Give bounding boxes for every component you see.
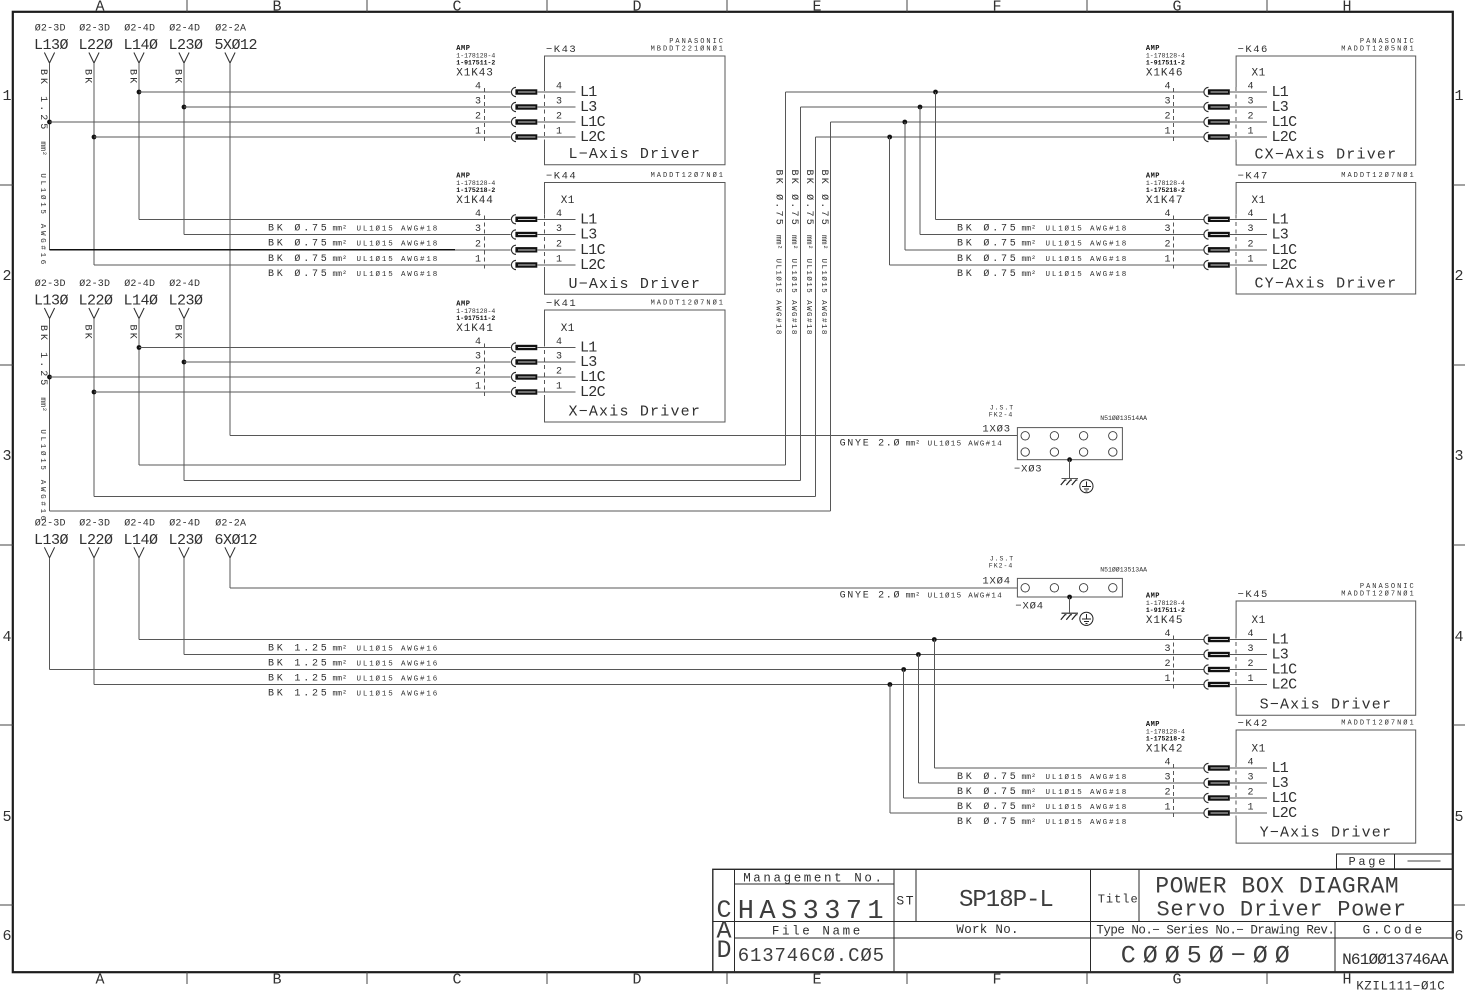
- svg-text:2: 2: [1248, 112, 1254, 123]
- node ground junction -X04: [1067, 595, 1072, 600]
- svg-text:5: 5: [1454, 809, 1463, 826]
- pin 2 of X1K46 (crimp terminal): [1204, 117, 1209, 126]
- svg-text:X1K41: X1K41: [456, 323, 494, 335]
- svg-text:X1: X1: [1252, 195, 1266, 207]
- svg-text:L22Ø: L22Ø: [79, 532, 114, 549]
- pin 1 of X1K46 (crimp terminal): [1204, 132, 1209, 141]
- svg-text:1-917511-2: 1-917511-2: [1146, 60, 1185, 67]
- wire dropper to K42 pin (x=918.4): [917, 655, 919, 784]
- wire pin 2 stub into K41: [537, 376, 575, 378]
- svg-text:MADDT12Ø7NØ1: MADDT12Ø7NØ1: [1341, 719, 1415, 728]
- svg-text:1-917511-2: 1-917511-2: [456, 315, 495, 322]
- svg-text:1: 1: [556, 382, 562, 393]
- svg-text:L2C: L2C: [580, 384, 606, 401]
- node junction bank2 L230: [182, 360, 187, 365]
- svg-text:1XØ4: 1XØ4: [982, 576, 1010, 588]
- svg-text:1: 1: [475, 127, 481, 138]
- wire pin 2 stub into K42: [1230, 797, 1267, 799]
- node junction bank1 L230: [182, 105, 187, 110]
- wire GNYE 5X012 to X03: [230, 435, 1017, 437]
- svg-text:N61ØØ13746AA: N61ØØ13746AA: [1342, 951, 1449, 969]
- svg-text:N51ØØ13514AA: N51ØØ13514AA: [1100, 414, 1147, 422]
- pin -X03 hole r2c2: [1050, 448, 1058, 456]
- node junction K42 feed (x=934.3): [932, 637, 937, 642]
- driver K46 box (CX−Axis Driver): [1236, 56, 1416, 165]
- wire pin 3 stub into K44: [537, 234, 575, 236]
- svg-text:613746CØ.CØ5: 613746CØ.CØ5: [738, 945, 885, 967]
- svg-text:1: 1: [1248, 127, 1254, 138]
- svg-text:3: 3: [1164, 97, 1170, 108]
- wire ground drop -X03: [1069, 460, 1071, 479]
- svg-text:X1K46: X1K46: [1146, 68, 1184, 80]
- svg-text:−K43: −K43: [546, 44, 577, 56]
- svg-text:3: 3: [556, 97, 562, 108]
- wire run to K46 pin (y=107): [801, 106, 1204, 108]
- svg-text:1: 1: [1164, 803, 1170, 814]
- wire pin 4 stub into K45: [1230, 639, 1267, 641]
- wire L220 to K41 pin: [94, 391, 511, 393]
- svg-text:1-178128-4: 1-178128-4: [1146, 53, 1185, 60]
- svg-text:1: 1: [2, 88, 11, 105]
- svg-text:SP18P-L: SP18P-L: [959, 887, 1053, 914]
- wire bank3 run to K45 pin (y=669.5): [50, 669, 1204, 671]
- svg-text:L14Ø: L14Ø: [124, 37, 159, 54]
- svg-text:2: 2: [475, 239, 481, 250]
- pin 1 of X1K45 (crimp terminal): [1204, 680, 1209, 689]
- svg-text:MADDT12Ø7NØ1: MADDT12Ø7NØ1: [1341, 171, 1415, 180]
- svg-text:L13Ø: L13Ø: [34, 532, 69, 549]
- wire L230 to K44 pin 3: [184, 234, 511, 236]
- pin 3 of X1K42 (crimp terminal): [1204, 778, 1209, 787]
- svg-text:HAS3371: HAS3371: [738, 897, 889, 927]
- wire bank1 5X012 vertical drop: [229, 63, 231, 436]
- svg-text:U−Axis Driver: U−Axis Driver: [568, 276, 701, 293]
- svg-text:1: 1: [1164, 255, 1170, 266]
- svg-text:4: 4: [475, 209, 481, 220]
- wire riser x=800.5: [800, 107, 802, 480]
- svg-text:1-178128-4: 1-178128-4: [456, 180, 495, 187]
- svg-text:L2C: L2C: [1272, 805, 1298, 822]
- svg-text:C: C: [452, 0, 461, 16]
- svg-text:X1: X1: [1252, 744, 1266, 756]
- pin 2 of X1K47 (crimp terminal): [1204, 245, 1209, 254]
- svg-text:3: 3: [475, 97, 481, 108]
- svg-text:3: 3: [1248, 644, 1254, 655]
- wire L140 to K44 pin 4: [139, 218, 511, 220]
- svg-text:Ø2-3D: Ø2-3D: [79, 23, 110, 35]
- pin 4 of X1K46 (crimp terminal): [1204, 87, 1209, 96]
- wire dropper to K47 pin (x=904.8): [904, 122, 906, 250]
- svg-text:−XØ3: −XØ3: [1014, 464, 1042, 476]
- node junction bank2 L130: [47, 375, 52, 380]
- wire bank3 run to K45 pin (y=639.5): [139, 639, 1204, 641]
- pin -X04 hole r1c1: [1021, 584, 1029, 592]
- svg-text:1: 1: [1248, 674, 1254, 685]
- svg-text:−K45: −K45: [1238, 589, 1269, 601]
- svg-text:F: F: [992, 0, 1001, 16]
- pin 2 of X1K43 (crimp terminal): [511, 117, 516, 126]
- svg-text:L23Ø: L23Ø: [169, 37, 204, 54]
- svg-text:6XØ12: 6XØ12: [215, 532, 258, 549]
- svg-text:Management No.: Management No.: [743, 871, 884, 885]
- svg-text:X1K45: X1K45: [1146, 615, 1184, 627]
- svg-text:6: 6: [2, 928, 11, 945]
- node junction bank1 L220: [92, 135, 97, 140]
- svg-text:L22Ø: L22Ø: [79, 293, 114, 310]
- wire L130 to K44 pin 2 (heavy): [50, 249, 456, 251]
- svg-text:MADDT12Ø5NØ1: MADDT12Ø5NØ1: [1341, 45, 1415, 54]
- pin 1 of X1K41 (crimp terminal): [511, 387, 516, 396]
- svg-text:BK: BK: [126, 325, 137, 341]
- svg-text:E: E: [812, 0, 821, 16]
- pin -X03 hole r1c1: [1021, 432, 1029, 440]
- svg-text:4: 4: [1454, 629, 1463, 646]
- pin -X03 hole r2c4: [1109, 448, 1117, 456]
- wire pin 4 stub into K46: [1230, 91, 1267, 93]
- pin 4 of X1K43 (crimp terminal): [511, 87, 516, 96]
- wire pin 1 stub into K41: [537, 391, 575, 393]
- svg-text:2: 2: [1248, 788, 1254, 799]
- wire bank3 run to K45 pin (y=684.5): [94, 684, 1204, 686]
- svg-text:1-917511-2: 1-917511-2: [1146, 607, 1185, 614]
- wire pin 4 stub into K43: [537, 91, 575, 93]
- wire bank1 L130 vertical drop: [49, 63, 51, 250]
- pin -X04 hole r1c3: [1079, 584, 1087, 592]
- wire dropper to K42 pin (x=889.9): [889, 685, 891, 814]
- wire bank2 L230 run to riser: [184, 479, 801, 481]
- svg-text:BK: BK: [126, 69, 137, 85]
- svg-text:KZIL111−Ø1C: KZIL111−Ø1C: [1356, 980, 1445, 992]
- wire pin 4 stub into K47: [1230, 218, 1267, 220]
- svg-text:X1K44: X1K44: [456, 195, 494, 207]
- svg-text:4: 4: [1248, 758, 1254, 769]
- driver K41 box (X−Axis Driver): [545, 310, 726, 422]
- svg-text:L14Ø: L14Ø: [124, 532, 159, 549]
- wire pin 4 stub into K42: [1230, 767, 1267, 769]
- wire bank2 L230 vertical drop: [183, 319, 185, 481]
- wire pin 2 stub into K44: [537, 249, 575, 251]
- svg-text:1: 1: [475, 382, 481, 393]
- svg-text:3: 3: [556, 352, 562, 363]
- svg-text:4: 4: [1248, 629, 1254, 640]
- svg-text:1-178128-4: 1-178128-4: [1146, 180, 1185, 187]
- pin 3 of X1K45 (crimp terminal): [1204, 650, 1209, 659]
- wire dropper to K47 pin (x=935.5): [935, 92, 937, 219]
- pin 1 of X1K43 (crimp terminal): [511, 132, 516, 141]
- wire L220 to K44 pin 1: [94, 264, 511, 266]
- svg-text:X1: X1: [561, 195, 575, 207]
- svg-text:ST: ST: [896, 894, 915, 909]
- svg-text:G: G: [1172, 0, 1181, 16]
- ground (earth) symbol -X04: [1062, 612, 1079, 614]
- svg-text:L23Ø: L23Ø: [169, 293, 204, 310]
- pin 2 of X1K41 (crimp terminal): [511, 372, 516, 381]
- svg-text:1-178128-4: 1-178128-4: [1146, 600, 1185, 607]
- wire bank3 L220 vertical drop: [93, 558, 95, 685]
- wire bank2 L130 run to riser: [50, 510, 831, 512]
- svg-text:4: 4: [2, 629, 11, 646]
- svg-text:G: G: [1172, 972, 1181, 989]
- wire bank3 run to K45 pin (y=654.5): [184, 654, 1204, 656]
- svg-text:BK: BK: [81, 69, 92, 85]
- node junction K47 feed (x=935.5): [933, 90, 938, 95]
- svg-text:1-175218-2: 1-175218-2: [1146, 187, 1185, 194]
- wire bank3 L230 vertical drop: [183, 558, 185, 655]
- pin 3 of X1K44 (crimp terminal): [511, 230, 516, 239]
- svg-text:A: A: [95, 0, 104, 16]
- svg-text:1: 1: [1164, 127, 1170, 138]
- svg-text:L23Ø: L23Ø: [169, 532, 204, 549]
- driver K47 box (CY−Axis Driver): [1236, 183, 1416, 295]
- svg-text:J.S.T: J.S.T: [990, 556, 1015, 563]
- svg-text:Ø2-2A: Ø2-2A: [215, 23, 246, 35]
- driver K43 box (L−Axis Driver): [545, 56, 726, 165]
- wire riser x=785.4: [784, 92, 786, 465]
- terminal block -X04 (J.S.T FK2-4): [1017, 578, 1122, 597]
- wire bank3 L140 vertical drop: [138, 558, 140, 640]
- svg-text:H: H: [1342, 972, 1351, 989]
- svg-text:Servo Driver Power: Servo Driver Power: [1157, 897, 1407, 922]
- pin 3 of X1K46 (crimp terminal): [1204, 102, 1209, 111]
- svg-text:POWER BOX DIAGRAM: POWER BOX DIAGRAM: [1155, 873, 1399, 899]
- svg-text:A: A: [95, 972, 104, 989]
- svg-text:1: 1: [1454, 88, 1463, 105]
- svg-text:1: 1: [475, 255, 481, 266]
- title block: [713, 869, 1453, 972]
- wire GNYE 6X012 to X04: [230, 587, 1017, 589]
- wire pin 2 stub into K45: [1230, 669, 1267, 671]
- svg-text:MADDT12Ø7NØ1: MADDT12Ø7NØ1: [1341, 590, 1415, 599]
- svg-text:L2C: L2C: [1272, 257, 1298, 274]
- svg-text:Ø2-4D: Ø2-4D: [169, 278, 200, 290]
- wire pin 3 stub into K42: [1230, 782, 1267, 784]
- svg-text:5: 5: [2, 809, 11, 826]
- svg-text:2: 2: [1454, 268, 1463, 285]
- svg-text:Ø2-4D: Ø2-4D: [124, 23, 155, 35]
- svg-text:2: 2: [556, 112, 562, 123]
- svg-text:6: 6: [1454, 928, 1463, 945]
- svg-text:D: D: [632, 0, 641, 16]
- wire pin 3 stub into K46: [1230, 106, 1267, 108]
- svg-text:4: 4: [556, 82, 562, 93]
- terminal block -X03 (J.S.T FK2-4): [1017, 428, 1122, 460]
- node junction K47 feed (x=920): [918, 105, 923, 110]
- svg-text:J.S.T: J.S.T: [990, 404, 1015, 411]
- wire L230 to K41 pin: [184, 361, 511, 363]
- protective earth symbol -X03: [1080, 480, 1093, 493]
- wire pin 1 stub into K46: [1230, 136, 1267, 138]
- svg-text:File Name: File Name: [772, 924, 863, 938]
- wire pin 1 stub into K45: [1230, 684, 1267, 686]
- svg-text:Ø2-4D: Ø2-4D: [169, 23, 200, 35]
- svg-text:4: 4: [1248, 82, 1254, 93]
- wire run to K46 pin (y=92): [785, 91, 1203, 93]
- svg-text:Ø2-3D: Ø2-3D: [35, 23, 66, 35]
- svg-text:X1K42: X1K42: [1146, 744, 1184, 756]
- svg-text:3: 3: [1248, 97, 1254, 108]
- svg-text:G.Code: G.Code: [1363, 923, 1425, 937]
- wire pin 2 stub into K43: [537, 121, 575, 123]
- svg-text:Ø2-3D: Ø2-3D: [35, 278, 66, 290]
- svg-text:1: 1: [1248, 255, 1254, 266]
- wire L130 to K41 pin: [50, 376, 511, 378]
- pin -X03 hole r1c2: [1050, 432, 1058, 440]
- pin 2 of X1K44 (crimp terminal): [511, 245, 516, 254]
- svg-text:BK: BK: [81, 325, 92, 341]
- svg-text:D: D: [716, 936, 731, 965]
- svg-text:H: H: [1342, 0, 1351, 16]
- svg-text:Ø2-4D: Ø2-4D: [169, 517, 200, 529]
- svg-text:1-175218-2: 1-175218-2: [456, 187, 495, 194]
- svg-text:2: 2: [1164, 239, 1170, 250]
- svg-text:CØØ5Ø−ØØ: CØØ5Ø−ØØ: [1121, 942, 1297, 971]
- svg-text:3: 3: [1164, 224, 1170, 235]
- pin 2 of X1K42 (crimp terminal): [1204, 793, 1209, 802]
- wire run to K46 pin (y=122): [831, 121, 1204, 123]
- svg-text:1XØ3: 1XØ3: [982, 424, 1010, 436]
- svg-text:C: C: [452, 972, 461, 989]
- wire riser x=815.6: [815, 137, 817, 497]
- svg-text:4: 4: [475, 337, 481, 348]
- svg-text:−K41: −K41: [546, 298, 577, 310]
- pin 3 of X1K43 (crimp terminal): [511, 102, 516, 111]
- pin 4 of X1K45 (crimp terminal): [1204, 635, 1209, 644]
- wire dropper to K42 pin (x=903.7): [903, 670, 905, 799]
- pin 4 of X1K41 (crimp terminal): [511, 343, 516, 352]
- svg-text:4: 4: [1164, 758, 1170, 769]
- pin -X04 hole r1c2: [1050, 584, 1058, 592]
- node junction K42 feed (x=918.4): [916, 652, 921, 657]
- svg-text:4: 4: [556, 337, 562, 348]
- svg-text:2: 2: [475, 367, 481, 378]
- pin -X04 hole r1c4: [1109, 584, 1117, 592]
- driver K44 box (U−Axis Driver): [545, 183, 726, 295]
- ground (earth) symbol -X03: [1062, 478, 1079, 480]
- svg-text:1-178128-4: 1-178128-4: [456, 308, 495, 315]
- svg-text:2: 2: [1164, 659, 1170, 670]
- pin -X03 hole r2c1: [1021, 448, 1029, 456]
- wire pin 3 stub into K43: [537, 106, 575, 108]
- svg-text:2: 2: [1248, 659, 1254, 670]
- pin 4 of X1K44 (crimp terminal): [511, 215, 516, 224]
- svg-text:3: 3: [1164, 773, 1170, 784]
- svg-text:MADDT12Ø7NØ1: MADDT12Ø7NØ1: [651, 299, 725, 308]
- svg-text:−K44: −K44: [546, 171, 577, 183]
- wire bank2 L220 run to riser: [94, 496, 816, 498]
- svg-text:2: 2: [1164, 112, 1170, 123]
- svg-text:L22Ø: L22Ø: [79, 37, 114, 54]
- svg-text:N51ØØ13513AA: N51ØØ13513AA: [1100, 565, 1147, 573]
- svg-text:B: B: [272, 0, 281, 16]
- svg-text:3: 3: [475, 224, 481, 235]
- wire bank2 L140 vertical drop: [138, 319, 140, 465]
- svg-text:E: E: [812, 972, 821, 989]
- svg-text:CY−Axis Driver: CY−Axis Driver: [1254, 276, 1397, 293]
- svg-text:L−Axis Driver: L−Axis Driver: [568, 146, 701, 163]
- svg-text:X1: X1: [1252, 68, 1266, 80]
- svg-text:L2C: L2C: [580, 257, 606, 274]
- wire bank2 L220 vertical drop: [93, 319, 95, 497]
- svg-text:FK2-4: FK2-4: [989, 563, 1014, 570]
- svg-text:Ø2-3D: Ø2-3D: [79, 278, 110, 290]
- wire pin 3 stub into K41: [537, 361, 575, 363]
- wire pin 4 stub into K44: [537, 218, 575, 220]
- svg-text:2: 2: [475, 112, 481, 123]
- svg-text:Y−Axis Driver: Y−Axis Driver: [1260, 825, 1393, 842]
- protective earth symbol -X04: [1080, 612, 1093, 625]
- svg-text:CX−Axis Driver: CX−Axis Driver: [1254, 147, 1397, 164]
- svg-text:MBDDT221ØNØ1: MBDDT221ØNØ1: [651, 45, 725, 54]
- pin 1 of X1K42 (crimp terminal): [1204, 808, 1209, 817]
- node junction bank2 L140: [137, 345, 142, 350]
- svg-text:L2C: L2C: [1272, 677, 1298, 694]
- svg-text:4: 4: [1248, 209, 1254, 220]
- svg-text:L2C: L2C: [580, 129, 606, 146]
- svg-text:4: 4: [475, 82, 481, 93]
- node ground junction -X03: [1067, 457, 1072, 462]
- node junction K47 feed (x=889.7): [887, 135, 892, 140]
- node junction bank1 L140: [137, 90, 142, 95]
- wire L220 to K43 pin: [94, 136, 511, 138]
- svg-text:F: F: [992, 972, 1001, 989]
- svg-text:4: 4: [1164, 82, 1170, 93]
- wire pin 3 stub into K47: [1230, 234, 1267, 236]
- pin 3 of X1K47 (crimp terminal): [1204, 230, 1209, 239]
- svg-text:4: 4: [1164, 209, 1170, 220]
- wire run to K46 pin (y=137): [816, 136, 1204, 138]
- svg-text:3: 3: [475, 352, 481, 363]
- svg-text:X1K43: X1K43: [456, 68, 494, 80]
- svg-text:3: 3: [1248, 773, 1254, 784]
- svg-text:3: 3: [1454, 448, 1463, 465]
- wire pin 3 stub into K45: [1230, 654, 1267, 656]
- svg-text:1-178128-4: 1-178128-4: [1146, 729, 1185, 736]
- wire L140 to K41 pin: [139, 347, 511, 349]
- svg-text:L13Ø: L13Ø: [34, 293, 69, 310]
- pin 1 of X1K44 (crimp terminal): [511, 260, 516, 269]
- svg-text:BK: BK: [171, 69, 182, 85]
- svg-text:3: 3: [1164, 644, 1170, 655]
- driver K45 box (S−Axis Driver): [1236, 601, 1416, 715]
- svg-text:Ø2-3D: Ø2-3D: [79, 517, 110, 529]
- svg-text:2: 2: [2, 268, 11, 285]
- wire pin 1 stub into K47: [1230, 264, 1267, 266]
- wire bank2 L130 vertical drop: [49, 319, 51, 512]
- pin -X03 hole r1c3: [1079, 432, 1087, 440]
- svg-text:Work No.: Work No.: [956, 923, 1018, 937]
- wire bank3 L130 vertical drop: [49, 558, 51, 670]
- svg-text:3: 3: [1248, 224, 1254, 235]
- wire dropper to K47 pin (x=920): [919, 107, 921, 235]
- svg-text:1-175218-2: 1-175218-2: [1146, 736, 1185, 743]
- svg-text:L13Ø: L13Ø: [34, 37, 69, 54]
- wire dropper to K42 pin (x=934.3): [933, 640, 935, 769]
- wire bank3 6X012 vertical drop: [229, 558, 231, 588]
- svg-text:B: B: [272, 972, 281, 989]
- pin 4 of X1K47 (crimp terminal): [1204, 215, 1209, 224]
- svg-text:4: 4: [556, 209, 562, 220]
- svg-text:4: 4: [1164, 629, 1170, 640]
- pin 2 of X1K45 (crimp terminal): [1204, 665, 1209, 674]
- node junction bank2 L220: [92, 390, 97, 395]
- svg-text:−K47: −K47: [1238, 171, 1269, 183]
- svg-text:Page: Page: [1349, 855, 1389, 869]
- wire L140 to K43 pin: [139, 91, 511, 93]
- svg-text:2: 2: [1248, 239, 1254, 250]
- svg-text:X1: X1: [1252, 615, 1266, 627]
- svg-text:−K46: −K46: [1238, 44, 1269, 56]
- svg-text:1: 1: [556, 127, 562, 138]
